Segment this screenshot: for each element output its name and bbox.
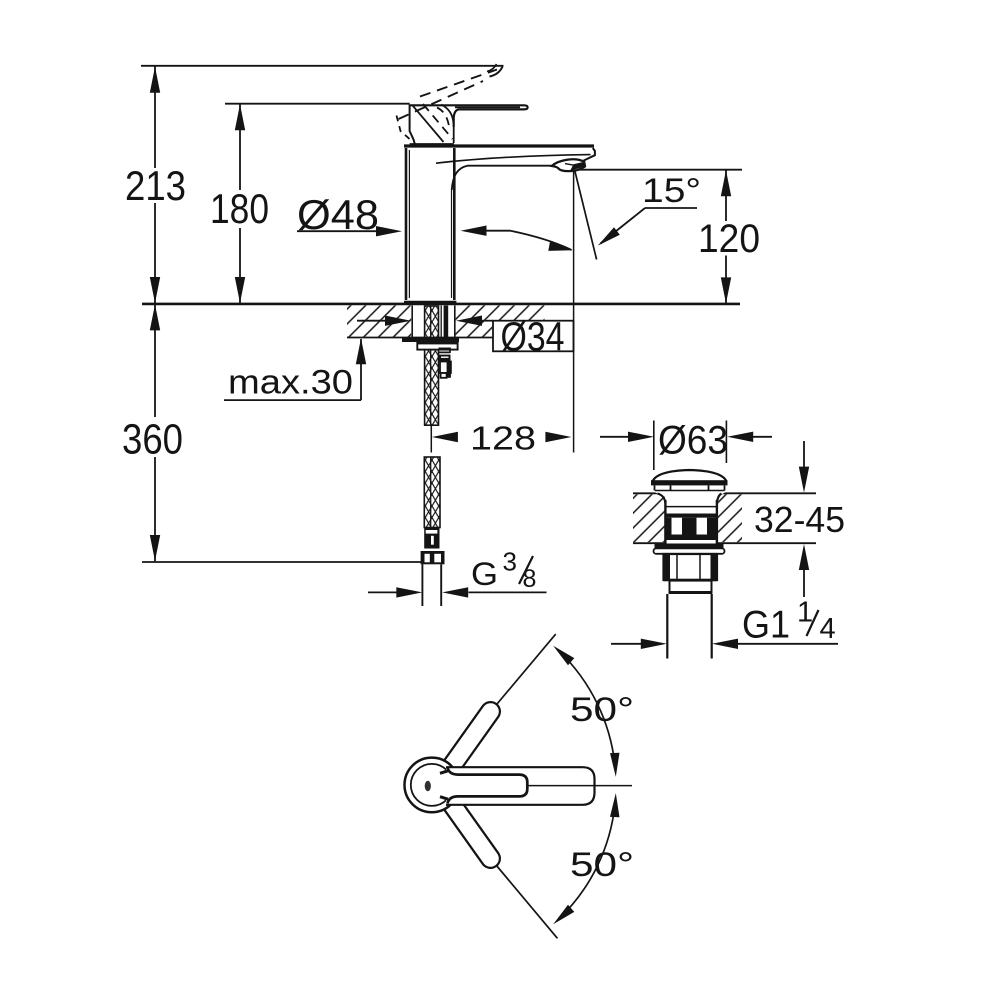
svg-text:213: 213: [125, 162, 186, 209]
svg-text:32-45: 32-45: [754, 499, 845, 540]
svg-text:180: 180: [210, 185, 269, 232]
svg-text:3: 3: [503, 547, 517, 577]
svg-text:max.30: max.30: [228, 364, 353, 402]
svg-text:G: G: [471, 556, 498, 592]
svg-text:360: 360: [122, 416, 183, 464]
svg-text:128: 128: [470, 420, 536, 457]
svg-text:Ø34: Ø34: [501, 314, 565, 360]
svg-text:4: 4: [820, 613, 836, 645]
svg-text:15°: 15°: [642, 172, 701, 210]
svg-text:50°: 50°: [570, 846, 634, 884]
svg-text:120: 120: [698, 217, 760, 261]
svg-text:G1: G1: [742, 604, 790, 647]
svg-text:Ø48: Ø48: [297, 191, 379, 238]
svg-text:50°: 50°: [570, 691, 634, 729]
svg-text:1: 1: [797, 597, 813, 629]
svg-text:Ø63: Ø63: [658, 419, 728, 463]
svg-text:8: 8: [523, 565, 537, 593]
